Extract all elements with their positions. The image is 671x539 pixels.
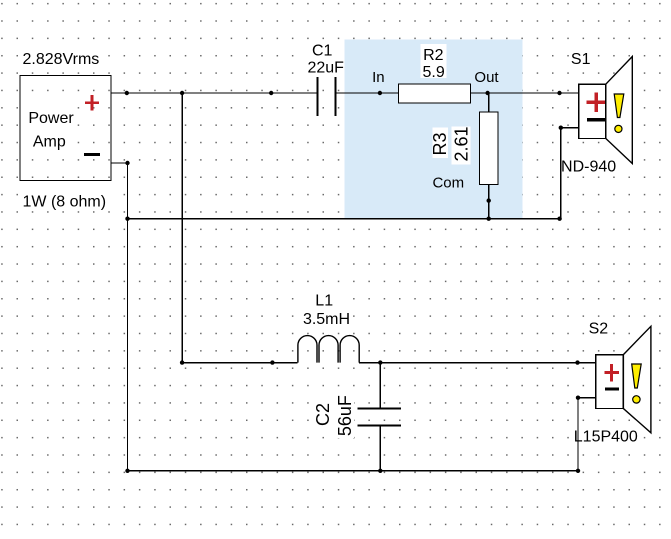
svg-text:5.9: 5.9 [422, 64, 444, 81]
svg-text:Com: Com [432, 175, 464, 192]
wire R2 to Out [471, 92, 579, 94]
wire V1 minus lead [111, 162, 128, 164]
wire branch horizontal to L1 [182, 362, 298, 364]
junction V1 minus pin [125, 161, 129, 165]
label R2 name [421, 44, 447, 78]
wire woofer branch vertical [181, 93, 183, 363]
svg-text:C1: C1 [312, 43, 333, 60]
wire S1 minus down to rail [560, 128, 562, 219]
L-pad attenuator highlight region [345, 39, 523, 218]
svg-text:R2: R2 [423, 47, 444, 64]
junction rail left end [125, 217, 129, 221]
resistor R3 [480, 112, 499, 185]
V1 plus terminal mark [85, 95, 99, 111]
svg-text:C2: C2 [313, 403, 333, 426]
wire bottom rail [128, 470, 579, 472]
S1 minus mark [587, 118, 606, 121]
voltage source V1 Power Amp box [20, 76, 111, 181]
label C1 name [305, 41, 344, 75]
wire V1+ to node (y=93 top net) [111, 92, 317, 94]
junction S2 minus to rail [576, 469, 580, 473]
junction S2 plus pin [575, 360, 579, 364]
label R3 name (rotated) [430, 128, 450, 159]
junction R3 to rail [487, 217, 491, 221]
label S2 model L15P400 [571, 426, 641, 446]
label node In [372, 69, 385, 86]
inductor L1 [298, 336, 359, 363]
svg-text:1W (8 ohm): 1W (8 ohm) [23, 193, 107, 210]
S1 exclamation icon [614, 94, 624, 133]
svg-text:2.61: 2.61 [452, 126, 472, 161]
svg-text:L1: L1 [315, 293, 333, 310]
wire S1 minus lead [561, 127, 579, 129]
junction R3 bottom pin [487, 198, 491, 202]
junction S1 minus to rail [557, 217, 561, 221]
junction S1 plus pin [557, 91, 561, 95]
capacitor C1 [318, 77, 380, 116]
junction C2 top tap [378, 360, 382, 364]
svg-text:ND-940: ND-940 [561, 158, 616, 175]
label R3 value 2.61 (rotated) [452, 126, 472, 164]
label R2 value 5.9 [422, 64, 444, 81]
label S1 name [570, 49, 592, 68]
S2 minus mark [605, 387, 619, 390]
V1 minus terminal mark [84, 153, 100, 156]
label V1 name Power Amp [26, 107, 76, 150]
junction L1 left pin [270, 360, 274, 364]
label L1 name [302, 291, 350, 327]
node In [378, 91, 382, 95]
wire S2 minus down to bottom rail [577, 398, 579, 471]
wire R3 bottom pin lead [488, 185, 490, 219]
label V1 power 1W (8 ohm) [20, 191, 110, 211]
junction V1+ pin dot [125, 91, 129, 95]
wire Out down to R3 [488, 93, 490, 112]
svg-text:S1: S1 [571, 51, 591, 68]
svg-text:2.828Vrms: 2.828Vrms [23, 51, 100, 68]
resistor R2 [399, 84, 471, 103]
label C2 value 56uF (rotated) [335, 393, 355, 438]
junction C2 bottom to rail [378, 469, 382, 473]
speaker S2 [596, 326, 651, 433]
svg-text:R3: R3 [430, 132, 450, 155]
svg-text:S2: S2 [589, 320, 609, 337]
junction S1 minus pin [559, 126, 563, 130]
label node Out [474, 69, 499, 86]
label C1 value 22uF [307, 60, 344, 77]
S2 plus mark [605, 364, 619, 382]
capacitor C2 [358, 363, 402, 471]
label S1 model ND-940 [559, 157, 618, 175]
svg-text:Out: Out [474, 69, 499, 86]
junction top-net to woofer branch [180, 91, 184, 95]
svg-text:Power: Power [28, 110, 74, 127]
svg-text:22uF: 22uF [307, 60, 344, 77]
wire L1 to S2 plus [359, 362, 596, 364]
wire left vertical V1- to bottom rail [127, 163, 129, 471]
node Out junction [485, 91, 489, 95]
label node Com [432, 175, 464, 192]
junction S2 minus pin [576, 396, 580, 400]
speaker S1 [579, 57, 633, 164]
svg-text:Amp: Amp [33, 133, 66, 150]
S2 exclamation icon [632, 364, 642, 403]
label S2 name [588, 319, 610, 337]
label C2 name (rotated) [313, 398, 333, 430]
junction C1 left pin [269, 91, 273, 95]
label V1 value 2.828Vrms [20, 48, 104, 68]
svg-text:3.5mH: 3.5mH [303, 311, 350, 328]
svg-text:L15P400: L15P400 [574, 429, 638, 446]
junction bottom rail left [125, 469, 129, 473]
label L1 value 3.5mH [303, 311, 350, 328]
wire In to R2 [380, 92, 399, 94]
S1 plus mark [587, 93, 606, 112]
svg-text:In: In [372, 69, 385, 86]
junction branch corner [180, 360, 184, 364]
svg-text:56uF: 56uF [335, 395, 355, 436]
wire S2 minus lead [578, 397, 596, 399]
wire common rail y=219 [128, 218, 560, 220]
